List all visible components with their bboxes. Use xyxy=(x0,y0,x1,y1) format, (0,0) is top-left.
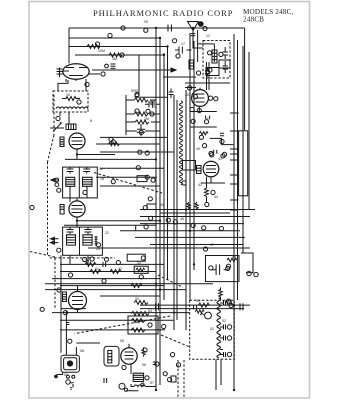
cap near V5 top xyxy=(205,67,210,77)
coil left of V6 xyxy=(197,166,202,174)
resistor net R a xyxy=(85,262,96,266)
wire y230.7 xyxy=(120,230,240,232)
bottom cap a xyxy=(156,303,159,310)
svg-text:53: 53 xyxy=(135,297,139,301)
tone box xyxy=(128,316,158,334)
svg-text:15: 15 xyxy=(66,93,70,97)
svg-text:44: 44 xyxy=(214,195,218,199)
svg-text:47: 47 xyxy=(210,243,214,247)
tap label 2 xyxy=(227,325,231,329)
wire y244.5 xyxy=(150,244,243,246)
bottom cap xyxy=(104,378,107,383)
net labels xyxy=(68,273,72,277)
svg-text:17: 17 xyxy=(181,42,185,46)
resistor on y46.5 xyxy=(87,45,100,49)
V7 osc enclosure rounded box xyxy=(104,346,119,366)
tube V7 xyxy=(121,348,137,364)
wire y83 xyxy=(185,82,230,84)
IF1 secondary coil xyxy=(83,177,93,186)
wire y177 xyxy=(96,176,157,178)
net cap 1 xyxy=(103,262,106,267)
wire y329.9 xyxy=(60,329,165,331)
svg-text:48: 48 xyxy=(232,255,236,259)
IF2 primary coil xyxy=(67,235,76,245)
svg-text:18: 18 xyxy=(100,177,104,181)
det label xyxy=(148,197,152,201)
speaker circle xyxy=(205,312,212,319)
tone resistor 1 xyxy=(131,319,145,323)
label mid xyxy=(146,109,150,113)
det resistor v1 xyxy=(187,202,190,210)
bottom resistor a xyxy=(198,303,209,307)
svg-text:57: 57 xyxy=(150,381,154,385)
det resistor v2 xyxy=(195,202,198,210)
label 9 xyxy=(57,188,61,192)
svg-text:25: 25 xyxy=(152,105,156,109)
labels below AF xyxy=(226,299,230,303)
coil above V5 xyxy=(189,60,194,69)
cluster right of V1 xyxy=(105,64,109,68)
svg-text:30: 30 xyxy=(85,259,89,263)
resistor R20 xyxy=(134,301,148,305)
label t10 xyxy=(203,26,207,30)
wire y168 xyxy=(100,167,164,169)
vbus x167.5 xyxy=(167,47,169,281)
labels right of V5 xyxy=(209,96,213,100)
svg-text:41: 41 xyxy=(218,157,222,161)
label t14 xyxy=(90,257,94,261)
resistor R21 xyxy=(131,312,149,316)
vbus x174 xyxy=(173,95,175,330)
right stubs xyxy=(230,113,239,210)
V4 socket detail xyxy=(72,289,83,305)
label t4 xyxy=(108,33,112,37)
V1 internal elements xyxy=(64,68,87,76)
cap C6 xyxy=(137,124,145,136)
wire V7 down xyxy=(130,364,132,374)
can top wires xyxy=(66,311,100,355)
RF coil box T1 (dashed) xyxy=(53,91,88,112)
labels on verticals xyxy=(182,181,186,185)
antenna node dot xyxy=(199,22,204,27)
vbus x186 xyxy=(185,90,187,330)
label t12 xyxy=(135,109,139,113)
label t2b xyxy=(173,39,177,43)
wire y320.3 xyxy=(60,319,174,321)
tuning arrows C xyxy=(51,237,59,244)
vbus x190 xyxy=(189,33,191,300)
cap mid xyxy=(151,100,154,105)
bottom labels xyxy=(124,388,127,391)
bottom tick xyxy=(70,388,72,390)
wire V2 plate down xyxy=(77,149,115,160)
label xyxy=(96,243,100,247)
label xyxy=(204,120,208,124)
squiggle below can xyxy=(70,382,74,388)
PT taps xyxy=(220,303,223,355)
coil bar left of V7 xyxy=(108,351,112,363)
labels below V5 xyxy=(190,107,194,111)
V7 internals xyxy=(125,344,134,359)
bottom label box xyxy=(171,376,176,382)
PT dashed box xyxy=(190,300,235,359)
wire y97 mid xyxy=(140,96,168,98)
label t2 xyxy=(144,28,148,32)
IF1 box xyxy=(63,167,98,198)
resistor mid cluster xyxy=(199,132,208,135)
label t6 xyxy=(120,53,124,57)
small cap cluster xyxy=(214,133,224,154)
dial cord dashed D xyxy=(161,335,190,347)
svg-text:58: 58 xyxy=(80,349,84,353)
resistor in AF box xyxy=(227,258,237,262)
tube V1 xyxy=(63,64,89,80)
mid labels row xyxy=(111,140,115,144)
V5 socket detail xyxy=(196,88,205,102)
svg-text:33: 33 xyxy=(137,261,141,265)
wire y216.5 xyxy=(140,216,250,218)
hook labels xyxy=(247,271,251,275)
cap cluster x170 xyxy=(169,89,174,99)
IF2 trimmer left xyxy=(67,227,74,234)
tube V5 xyxy=(192,90,209,107)
svg-text:248CB: 248CB xyxy=(243,16,264,24)
can mid xyxy=(64,358,77,370)
labels near coil xyxy=(196,71,200,75)
vbus x237.5 xyxy=(237,40,239,300)
svg-text:52: 52 xyxy=(222,319,226,323)
IF2 inner divider xyxy=(79,227,81,255)
bottom cap b xyxy=(240,303,243,310)
resistor below can xyxy=(66,380,70,384)
osc box dashed xyxy=(203,41,230,79)
label 6 in T1 xyxy=(77,100,81,104)
wire y87.5 xyxy=(185,87,196,89)
coil in T1 xyxy=(56,107,88,109)
resistor below AF xyxy=(219,287,223,299)
labels xyxy=(141,256,145,260)
dial cord dashed E xyxy=(75,316,171,334)
label t15 xyxy=(83,257,87,261)
coil in osc box xyxy=(212,50,217,63)
node dots xyxy=(155,27,157,29)
tap label 1 xyxy=(227,301,231,305)
gang arrow 1 xyxy=(51,178,59,181)
V3 internal elements xyxy=(72,206,83,213)
caps right of V7 xyxy=(153,362,157,365)
resistor R4 xyxy=(134,112,148,116)
IF2 secondary coil xyxy=(83,235,92,245)
loop antenna vertical coil xyxy=(180,101,183,185)
shield box right of coil xyxy=(183,161,196,171)
cap pair below V5 xyxy=(206,116,210,119)
tube V3 xyxy=(69,201,85,217)
V3 grid coil bar xyxy=(60,205,64,215)
wire bus y46.5 xyxy=(69,46,168,48)
tap label 3 xyxy=(227,336,231,340)
PT bottom verticals xyxy=(216,359,221,390)
wire y225.3 xyxy=(64,224,156,226)
tap caps xyxy=(224,301,226,358)
IF2 extra resistor xyxy=(95,236,98,246)
wire y127 xyxy=(190,126,217,128)
label t5 xyxy=(95,42,99,46)
AF labels xyxy=(209,266,213,270)
left node dot xyxy=(55,375,58,378)
wire V1 plate drop x69 xyxy=(68,28,70,64)
IF1 primary coil xyxy=(66,177,75,186)
coil L2 between T1 and V2 xyxy=(66,124,76,130)
stub x135.7 xyxy=(135,225,137,231)
labels above V6 xyxy=(209,151,213,155)
svg-text:59: 59 xyxy=(64,373,68,377)
wire y278.6 xyxy=(52,278,160,280)
wire y271.5 xyxy=(60,271,156,273)
small box in osc box xyxy=(206,68,219,76)
wire y209.5 xyxy=(140,209,255,211)
resistor on y53 xyxy=(109,53,122,57)
wire y308.6 xyxy=(140,308,244,310)
vbus x160 xyxy=(159,39,161,385)
resistor in volume box xyxy=(136,268,145,271)
antenna xyxy=(188,22,199,41)
label t8 xyxy=(176,54,180,58)
dial dashed diagonal A xyxy=(94,173,162,194)
scattered circled labels top area xyxy=(57,26,207,292)
wire y296 xyxy=(100,295,160,297)
resistor net R c xyxy=(110,270,121,274)
bottom wires xyxy=(126,384,156,391)
PT resistor xyxy=(195,310,204,313)
V6 resistor below xyxy=(205,188,209,197)
wire y312.6 xyxy=(52,312,190,314)
label t11 xyxy=(150,112,154,116)
svg-text:PHILHARMONIC RADIO CORP: PHILHARMONIC RADIO CORP xyxy=(93,8,233,18)
dashed diagonal C xyxy=(158,275,183,287)
cap in AF box xyxy=(212,264,229,275)
can bottom wires xyxy=(54,372,63,376)
IF1 trimmer right xyxy=(83,167,90,173)
svg-text:3M: 3M xyxy=(112,57,117,61)
dashed diagonal B xyxy=(30,252,57,258)
label 7 xyxy=(56,116,60,120)
resistor R5 xyxy=(135,120,149,124)
IF2 wires down xyxy=(70,255,88,264)
svg-text:56: 56 xyxy=(142,363,146,367)
svg-text:55: 55 xyxy=(120,339,124,343)
det labels xyxy=(202,226,206,230)
osc solid frame xyxy=(198,30,215,62)
svg-text:60: 60 xyxy=(186,93,190,97)
wire y77 xyxy=(163,76,196,78)
wire V1 cathode to T1 xyxy=(58,80,86,91)
tiny value texts for texture xyxy=(64,20,236,385)
labels below V6 xyxy=(211,190,215,194)
tube V2 xyxy=(69,133,85,149)
V6 internals xyxy=(206,166,216,173)
svg-text:50: 50 xyxy=(196,299,200,303)
wire y305 xyxy=(140,304,250,306)
filament coil xyxy=(134,385,145,387)
wire y144 xyxy=(96,143,160,145)
dots below can xyxy=(66,375,69,378)
pilot lamp xyxy=(119,383,125,389)
wire V4 down xyxy=(77,286,79,313)
vbus x243 xyxy=(242,46,244,253)
wire y152 xyxy=(100,151,174,153)
wire y111.5 xyxy=(190,111,217,113)
svg-text:61: 61 xyxy=(206,117,210,121)
wire y223.6 xyxy=(140,223,244,225)
gang dashed lower vertical xyxy=(54,258,56,308)
svg-text:10M: 10M xyxy=(98,49,105,53)
svg-text:40: 40 xyxy=(196,147,200,151)
svg-text:8: 8 xyxy=(90,119,92,123)
vbus x194 xyxy=(193,41,195,270)
labels near V7 xyxy=(122,365,126,369)
wire y213 xyxy=(160,212,230,214)
left vert x61 xyxy=(61,255,86,352)
IF2 box xyxy=(63,227,103,255)
svg-text:2M: 2M xyxy=(144,117,149,121)
label t13 xyxy=(57,288,61,292)
wire bus y39 xyxy=(69,37,160,39)
cap C5 xyxy=(145,101,160,108)
volume box xyxy=(134,266,148,273)
wire y248 xyxy=(88,247,250,249)
cap near x180 y50 xyxy=(175,47,191,54)
IF1 side labels xyxy=(55,178,59,182)
svg-text:51: 51 xyxy=(210,327,214,331)
tap label 4 xyxy=(227,352,231,356)
wire below T1 xyxy=(60,112,69,124)
capacitor on top bus xyxy=(168,25,171,32)
V7 grid resistor right xyxy=(142,347,145,356)
wire antenna into box xyxy=(193,41,203,49)
vbus x249 xyxy=(248,52,250,210)
wire y137.4 xyxy=(100,136,168,138)
wire V5 down xyxy=(199,62,209,112)
V1 pins xyxy=(66,79,86,82)
vbus x234 xyxy=(233,34,235,390)
small box right of osc xyxy=(219,60,230,68)
bottom dashed leads xyxy=(178,360,184,397)
trimmer 1 in osc box xyxy=(223,47,229,59)
vbus x164 xyxy=(163,53,165,300)
label 13 xyxy=(57,248,61,252)
PT cap xyxy=(194,306,197,310)
V2 grid coil bar xyxy=(60,137,64,147)
resistor net R d xyxy=(131,284,142,288)
svg-text:54: 54 xyxy=(148,309,152,313)
tube V4 xyxy=(69,292,87,310)
vbus x156 xyxy=(155,28,157,390)
gang dashed enclosure xyxy=(48,95,55,256)
PT winding xyxy=(217,298,220,358)
ladder top connector xyxy=(138,55,140,95)
vbus x177 xyxy=(176,100,178,320)
left small box det xyxy=(147,204,156,210)
AF box xyxy=(206,256,240,282)
V4 coil bar left xyxy=(63,292,67,302)
svg-text:32: 32 xyxy=(118,267,122,271)
wire y237.4 xyxy=(135,236,245,238)
V2 internal elements xyxy=(72,138,83,145)
svg-text:43: 43 xyxy=(198,183,202,187)
speaker squiggle xyxy=(200,314,204,315)
IF1 trimmer left xyxy=(67,167,74,173)
label xyxy=(220,139,224,143)
svg-text:16: 16 xyxy=(99,167,103,171)
gang dashed bottom xyxy=(50,257,115,259)
IF2 trimmer right xyxy=(85,227,92,234)
can outer xyxy=(61,355,79,372)
svg-text:31: 31 xyxy=(95,267,99,271)
small box y254 xyxy=(127,254,145,261)
svg-text:45: 45 xyxy=(160,203,164,207)
label t1 xyxy=(121,26,125,30)
wire y283.8 xyxy=(45,283,213,285)
svg-text:50M: 50M xyxy=(131,89,138,93)
resistor bank below V7 xyxy=(133,373,143,381)
resistor on y144 xyxy=(108,142,119,145)
right tall rect xyxy=(239,131,248,196)
wire y264.4 xyxy=(60,263,164,265)
svg-text:46: 46 xyxy=(180,217,184,221)
svg-text:.05: .05 xyxy=(143,20,148,24)
small box mid xyxy=(137,176,147,182)
wire y186 xyxy=(100,185,160,187)
label R3 xyxy=(135,92,139,96)
IF1 wires down xyxy=(70,186,87,202)
can inner dot xyxy=(67,361,72,366)
vbus x244.6 xyxy=(244,28,246,130)
svg-text:12: 12 xyxy=(206,34,210,38)
wire top bus y28 xyxy=(69,27,245,29)
label xyxy=(144,225,148,229)
resistor in T1 xyxy=(62,97,80,101)
wire y159.4 xyxy=(65,158,156,160)
svg-text:24: 24 xyxy=(96,247,100,251)
wire y285.6 xyxy=(60,285,164,287)
wire y289.6 xyxy=(45,289,186,291)
ladder rail xyxy=(126,95,160,135)
osc inner labels xyxy=(208,51,212,55)
tone resistor 2 xyxy=(131,328,145,332)
label 1 left edge xyxy=(30,205,34,209)
label t7 xyxy=(135,94,139,98)
tone labels xyxy=(148,323,152,327)
svg-text:22: 22 xyxy=(105,231,109,235)
label above AF box xyxy=(203,247,207,251)
antenna coil L1 xyxy=(57,68,69,78)
can top label xyxy=(68,339,72,343)
resistor net R b xyxy=(90,270,101,274)
IF1 inner divider xyxy=(78,167,80,198)
wire bus y53 xyxy=(75,54,164,56)
label left bottom xyxy=(40,307,44,311)
step wire xyxy=(210,138,234,144)
wire avc y70 with arrow xyxy=(92,68,176,72)
trimmer 2 in osc box xyxy=(223,61,229,73)
wire V3 plate down xyxy=(77,217,160,227)
label 2 at V1 xyxy=(85,82,89,86)
tube V6 xyxy=(203,161,219,177)
V6 bottom wires xyxy=(201,177,225,203)
label above xyxy=(109,137,113,141)
label xyxy=(199,135,203,139)
resistor R3 xyxy=(134,98,148,102)
